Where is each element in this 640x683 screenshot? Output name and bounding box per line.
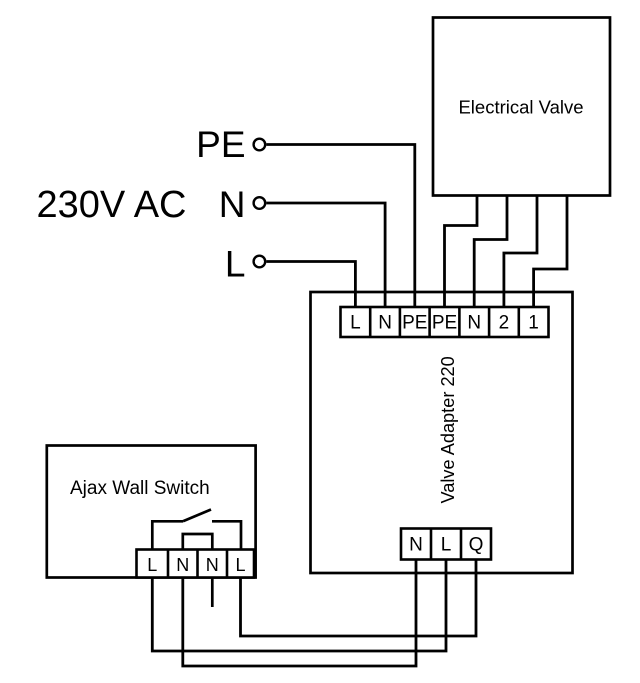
svg-text:PE: PE: [196, 124, 245, 165]
svg-text:Ajax Wall Switch: Ajax Wall Switch: [70, 478, 210, 499]
svg-text:Q: Q: [469, 535, 484, 556]
svg-text:230V AC: 230V AC: [37, 184, 187, 226]
svg-text:L: L: [441, 535, 452, 556]
svg-text:PE: PE: [402, 313, 427, 334]
svg-text:N: N: [467, 313, 481, 334]
svg-text:L: L: [350, 313, 361, 334]
svg-text:N: N: [176, 555, 189, 575]
svg-text:L: L: [147, 555, 157, 575]
svg-text:Electrical Valve: Electrical Valve: [458, 97, 583, 118]
svg-text:N: N: [206, 555, 219, 575]
svg-text:Valve Adapter 220: Valve Adapter 220: [438, 356, 458, 503]
svg-text:1: 1: [528, 313, 539, 334]
svg-text:L: L: [225, 244, 246, 285]
svg-text:PE: PE: [432, 313, 457, 334]
svg-text:2: 2: [499, 313, 510, 334]
svg-text:L: L: [235, 555, 245, 575]
svg-text:N: N: [378, 313, 392, 334]
svg-text:N: N: [219, 184, 246, 225]
svg-text:N: N: [409, 535, 423, 556]
